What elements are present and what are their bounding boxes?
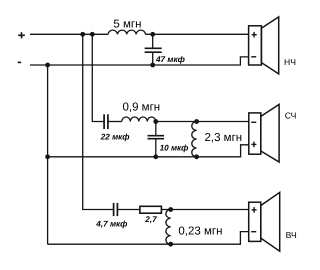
svg-text:0,23 мгн: 0,23 мгн	[178, 226, 222, 238]
junction top rail / mid feed	[80, 32, 85, 37]
wire bottom feed vertical	[83, 34, 114, 209]
wire + rail	[30, 33, 108, 35]
junction - rail / minus vertical	[45, 63, 50, 68]
capacitor C2 22 мкф	[104, 114, 108, 129]
svg-text:0,9 мгн: 0,9 мгн	[123, 102, 161, 114]
svg-text:2,7: 2,7	[144, 215, 157, 224]
terminal -	[18, 61, 22, 63]
speaker НЧ minus pin	[251, 56, 256, 58]
speaker ВЧ minus pin	[251, 231, 256, 233]
inductor L4 0,23 мгн	[166, 210, 171, 245]
junction bottom branch / L4	[168, 207, 173, 212]
junction mid top / L3	[194, 119, 199, 124]
junction - rail / C1	[150, 63, 155, 68]
capacitor C4 4,7 мкф	[114, 203, 118, 216]
resistor R1 2,7	[140, 206, 162, 213]
wire R1 to speaker	[161, 209, 248, 211]
wire mid top to speaker	[156, 121, 249, 123]
svg-text:НЧ: НЧ	[284, 57, 296, 67]
svg-text:4,7 мкф: 4,7 мкф	[95, 220, 127, 229]
junction top rail / C1	[150, 32, 155, 37]
wire mid feed vertical	[92, 34, 104, 121]
junction bottom rail / L4	[168, 242, 173, 247]
speaker СЧ plus pin	[251, 142, 256, 148]
wire - rail	[30, 57, 249, 65]
speaker СЧ minus pin	[251, 121, 256, 123]
inductor L2 0,9 мгн	[122, 117, 156, 122]
wire mid bottom	[48, 145, 249, 157]
svg-text:ВЧ: ВЧ	[286, 230, 297, 240]
junction mid bottom / C3	[153, 154, 158, 159]
wire C2 to L2	[108, 121, 122, 123]
svg-text:47 мкф: 47 мкф	[155, 55, 185, 64]
inductor L1 5 мгн	[108, 30, 145, 34]
svg-text:СЧ: СЧ	[285, 111, 297, 121]
speaker НЧ plus pin	[252, 32, 257, 38]
junction minus vertical / mid bottom	[45, 154, 50, 159]
inductor L3 2,3 мгн	[192, 122, 197, 157]
wire minus vertical	[47, 65, 49, 244]
svg-text:10 мкф: 10 мкф	[160, 144, 189, 153]
svg-text:5 мгн: 5 мгн	[113, 19, 141, 31]
speaker ВЧ body	[249, 192, 280, 251]
wire bottom rail	[48, 232, 249, 245]
junction mid top / C3	[153, 119, 158, 124]
junction mid bottom / L3	[194, 154, 199, 159]
speaker НЧ body	[249, 17, 279, 74]
junction top rail / bottom feed	[90, 32, 95, 37]
wire + rail right of L1	[146, 33, 249, 35]
speaker ВЧ plus pin	[252, 207, 257, 213]
speaker СЧ body	[249, 104, 279, 162]
capacitor C1 47 мкф	[145, 34, 162, 65]
svg-text:22 мкф: 22 мкф	[100, 133, 130, 142]
terminal +	[18, 32, 25, 38]
svg-text:2,3 мгн: 2,3 мгн	[205, 132, 243, 144]
wire C4 to R1	[117, 209, 139, 211]
capacitor C3 10 мкф	[148, 122, 165, 157]
